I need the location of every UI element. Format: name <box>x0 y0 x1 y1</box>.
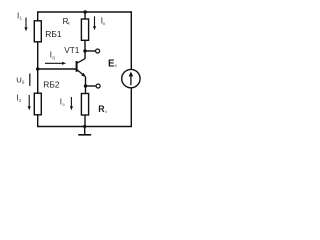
terminal collector output circle <box>96 49 100 53</box>
svg-text:VT1: VT1 <box>64 45 80 55</box>
wire Rk top lead <box>84 12 86 19</box>
wire bottom rail <box>37 126 132 128</box>
wire between RB1 and node B <box>37 42 39 70</box>
wire right rail upper (Ek to top) <box>130 11 132 69</box>
svg-text:2: 2 <box>19 98 22 103</box>
current arrow Ik <box>94 16 96 28</box>
wire emitter output stub <box>86 85 97 87</box>
resistor Rk <box>81 19 88 40</box>
wire left divider branch upper <box>37 11 39 20</box>
current arrow Ie <box>70 97 72 108</box>
source Ek <box>122 69 140 87</box>
svg-text:RБ2: RБ2 <box>43 79 60 89</box>
voltage bar Ub <box>29 74 31 86</box>
current arrow Ib <box>45 62 64 64</box>
base bar <box>76 61 78 72</box>
wire base (node B to VT1 base) <box>38 68 76 70</box>
emitter lead diagonal with arrow <box>77 70 86 77</box>
resistor RB2 <box>34 93 41 115</box>
node B junction dot <box>36 67 39 70</box>
wire collector output stub <box>85 50 96 52</box>
wire emitter down <box>85 77 87 94</box>
resistor Re <box>81 94 88 116</box>
wire Re bottom lead <box>84 115 86 127</box>
svg-text:RБ1: RБ1 <box>45 29 62 39</box>
ground <box>78 127 91 135</box>
node junction dot top rail / Rk <box>84 10 87 13</box>
node collector junction dot <box>83 49 86 52</box>
resistor RB1 <box>34 21 41 42</box>
current arrow I2 <box>28 95 30 108</box>
svg-text:б: б <box>22 80 25 85</box>
transistor VT1 <box>64 45 86 77</box>
wire Rk bottom lead to collector <box>84 40 86 59</box>
wire between node B and RB2 <box>37 69 39 93</box>
svg-text:1: 1 <box>20 16 23 21</box>
node emitter junction dot <box>84 84 87 87</box>
wire right rail lower (Ek to bottom) <box>130 88 132 127</box>
wire top rail <box>38 11 132 13</box>
svg-text:б: б <box>52 55 55 60</box>
current arrow I1 <box>25 18 27 30</box>
wire RB2 to bottom rail <box>37 115 39 127</box>
collector lead diagonal <box>77 59 85 64</box>
node bottom rail junction dot <box>83 125 86 128</box>
terminal emitter output circle <box>96 84 100 88</box>
